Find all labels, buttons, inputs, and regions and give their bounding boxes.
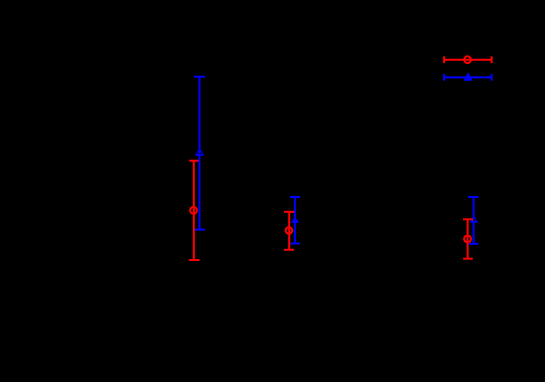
- group 1 blue triangle marker: [195, 148, 204, 156]
- group 1 red open circle marker: [190, 207, 197, 214]
- group 2 red open circle marker: [286, 227, 293, 234]
- group 1 blue error bar: [194, 77, 205, 230]
- group 2 blue triangle marker: [291, 216, 299, 223]
- legend blue entry: horizontal error bar with filled triangle: [443, 74, 492, 81]
- group 2 blue error bar: [290, 197, 300, 244]
- group 1 red error bar: [189, 161, 200, 260]
- group 3 red open circle marker: [464, 236, 471, 243]
- group 3 blue error bar: [468, 197, 478, 244]
- group 3 blue triangle marker: [470, 215, 478, 222]
- group 2 red error bar: [284, 212, 294, 250]
- legend red entry: horizontal error bar with open circle: [443, 56, 492, 63]
- wire: [443, 59, 492, 61]
- group 3 red error bar: [463, 219, 473, 258]
